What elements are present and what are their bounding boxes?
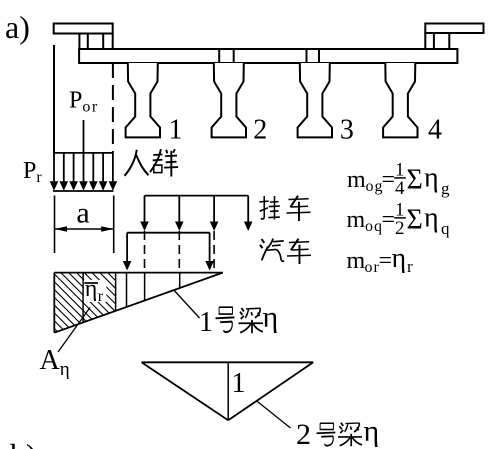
trailer load dashed line — [144, 231, 146, 273]
label guache (trailer) — [259, 196, 310, 221]
dimension line a — [55, 228, 114, 230]
influence line 2 right slant — [228, 362, 313, 420]
dimension extension lines — [55, 196, 114, 254]
deck hinge joint 2 — [307, 49, 320, 63]
left railing post — [79, 34, 112, 50]
leader line girder1 eta — [174, 291, 199, 319]
left railing bar — [54, 24, 113, 34]
auto load arrow right — [209, 233, 211, 263]
svg-text:oq: oq — [365, 218, 383, 235]
svg-text:=: = — [382, 207, 396, 233]
girder 1 — [126, 63, 160, 137]
svg-text:2: 2 — [296, 418, 311, 449]
leader line girder2 eta — [257, 401, 291, 428]
svg-text:m: m — [347, 248, 366, 274]
crowd load arrow 7 — [112, 153, 114, 183]
crowd load arrow 1 — [53, 153, 55, 183]
bridge deck slab — [79, 49, 457, 63]
label renqun (crowd) — [125, 149, 179, 176]
crowd load arrow 6 — [102, 153, 104, 183]
influence line 1 baseline — [54, 272, 223, 274]
svg-text:Σ: Σ — [407, 165, 423, 196]
svg-text:η: η — [263, 301, 279, 334]
auto load arrow left — [126, 233, 128, 263]
trailer load arrow 4 — [247, 196, 249, 223]
girder 3 — [298, 63, 332, 137]
crowd load arrow 3 — [73, 153, 75, 183]
trailer load dashed line — [213, 231, 215, 273]
influence line 2 left slant — [142, 362, 229, 420]
crowd load baseline — [53, 190, 114, 192]
svg-text:Por: Por — [69, 88, 99, 116]
trailer load dashed line — [178, 231, 180, 273]
influence line 1 left edge — [53, 273, 55, 333]
svg-text:2: 2 — [253, 115, 267, 146]
svg-text:a: a — [76, 197, 89, 230]
influence line 1 slant — [54, 273, 223, 333]
svg-text:Pr: Pr — [23, 158, 42, 186]
crowd load arrow 5 — [92, 153, 94, 183]
svg-text:=: = — [382, 167, 396, 193]
influence line 2 baseline — [142, 361, 314, 363]
left edge line — [53, 45, 55, 153]
leader line A_eta — [58, 308, 90, 353]
influence line 2 ordinate — [227, 362, 229, 420]
deck hinge joint 1 — [219, 49, 234, 63]
right railing bar — [425, 24, 483, 34]
svg-text:4: 4 — [395, 178, 405, 199]
hatch right edge x=115.6 — [115, 273, 117, 311]
crowd load arrow 4 — [83, 153, 85, 183]
svg-text:a): a) — [5, 9, 30, 45]
svg-text:η: η — [392, 243, 407, 274]
svg-text:q: q — [441, 219, 450, 238]
dashed curb line — [112, 63, 114, 153]
crowd load arrow 2 — [63, 153, 65, 183]
svg-text:Aη: Aη — [40, 345, 70, 380]
svg-text:η: η — [424, 163, 439, 194]
svg-text:1: 1 — [169, 115, 183, 146]
trailer load arrow 2 — [178, 196, 180, 223]
svg-text:1: 1 — [199, 307, 213, 338]
trailer load arrow 3 — [213, 196, 215, 223]
label qiche (automobile) — [260, 239, 311, 264]
auto load top line — [127, 232, 210, 234]
svg-text:=: = — [379, 248, 393, 274]
trailer load arrow 1 — [144, 196, 146, 223]
label eta_r with overbar — [84, 280, 107, 302]
svg-text:η: η — [424, 203, 439, 234]
P_or load line — [83, 120, 85, 153]
ordinate x=144.6 — [144, 273, 146, 301]
svg-text:r: r — [407, 257, 413, 276]
ordinate x=126.5 — [126, 273, 128, 307]
svg-text:b): b) — [10, 437, 37, 449]
crowd load top line — [53, 152, 113, 154]
svg-text:4: 4 — [428, 115, 442, 146]
svg-text:η: η — [85, 276, 98, 302]
eta_r ordinate x=83.1 — [82, 273, 84, 323]
girder 4 — [383, 63, 417, 137]
svg-text:η: η — [364, 415, 380, 448]
svg-text:r: r — [98, 288, 104, 305]
svg-text:Σ: Σ — [407, 205, 423, 236]
svg-text:g: g — [441, 179, 450, 198]
trailer load top line — [145, 195, 249, 197]
svg-text:1: 1 — [232, 368, 246, 399]
right railing post — [425, 33, 449, 49]
svg-text:3: 3 — [340, 115, 354, 146]
svg-text:m: m — [347, 207, 366, 233]
svg-text:m: m — [347, 167, 366, 193]
svg-text:2: 2 — [395, 218, 405, 239]
girder 2 — [212, 63, 246, 137]
ordinate x=179.7 — [179, 273, 181, 288]
